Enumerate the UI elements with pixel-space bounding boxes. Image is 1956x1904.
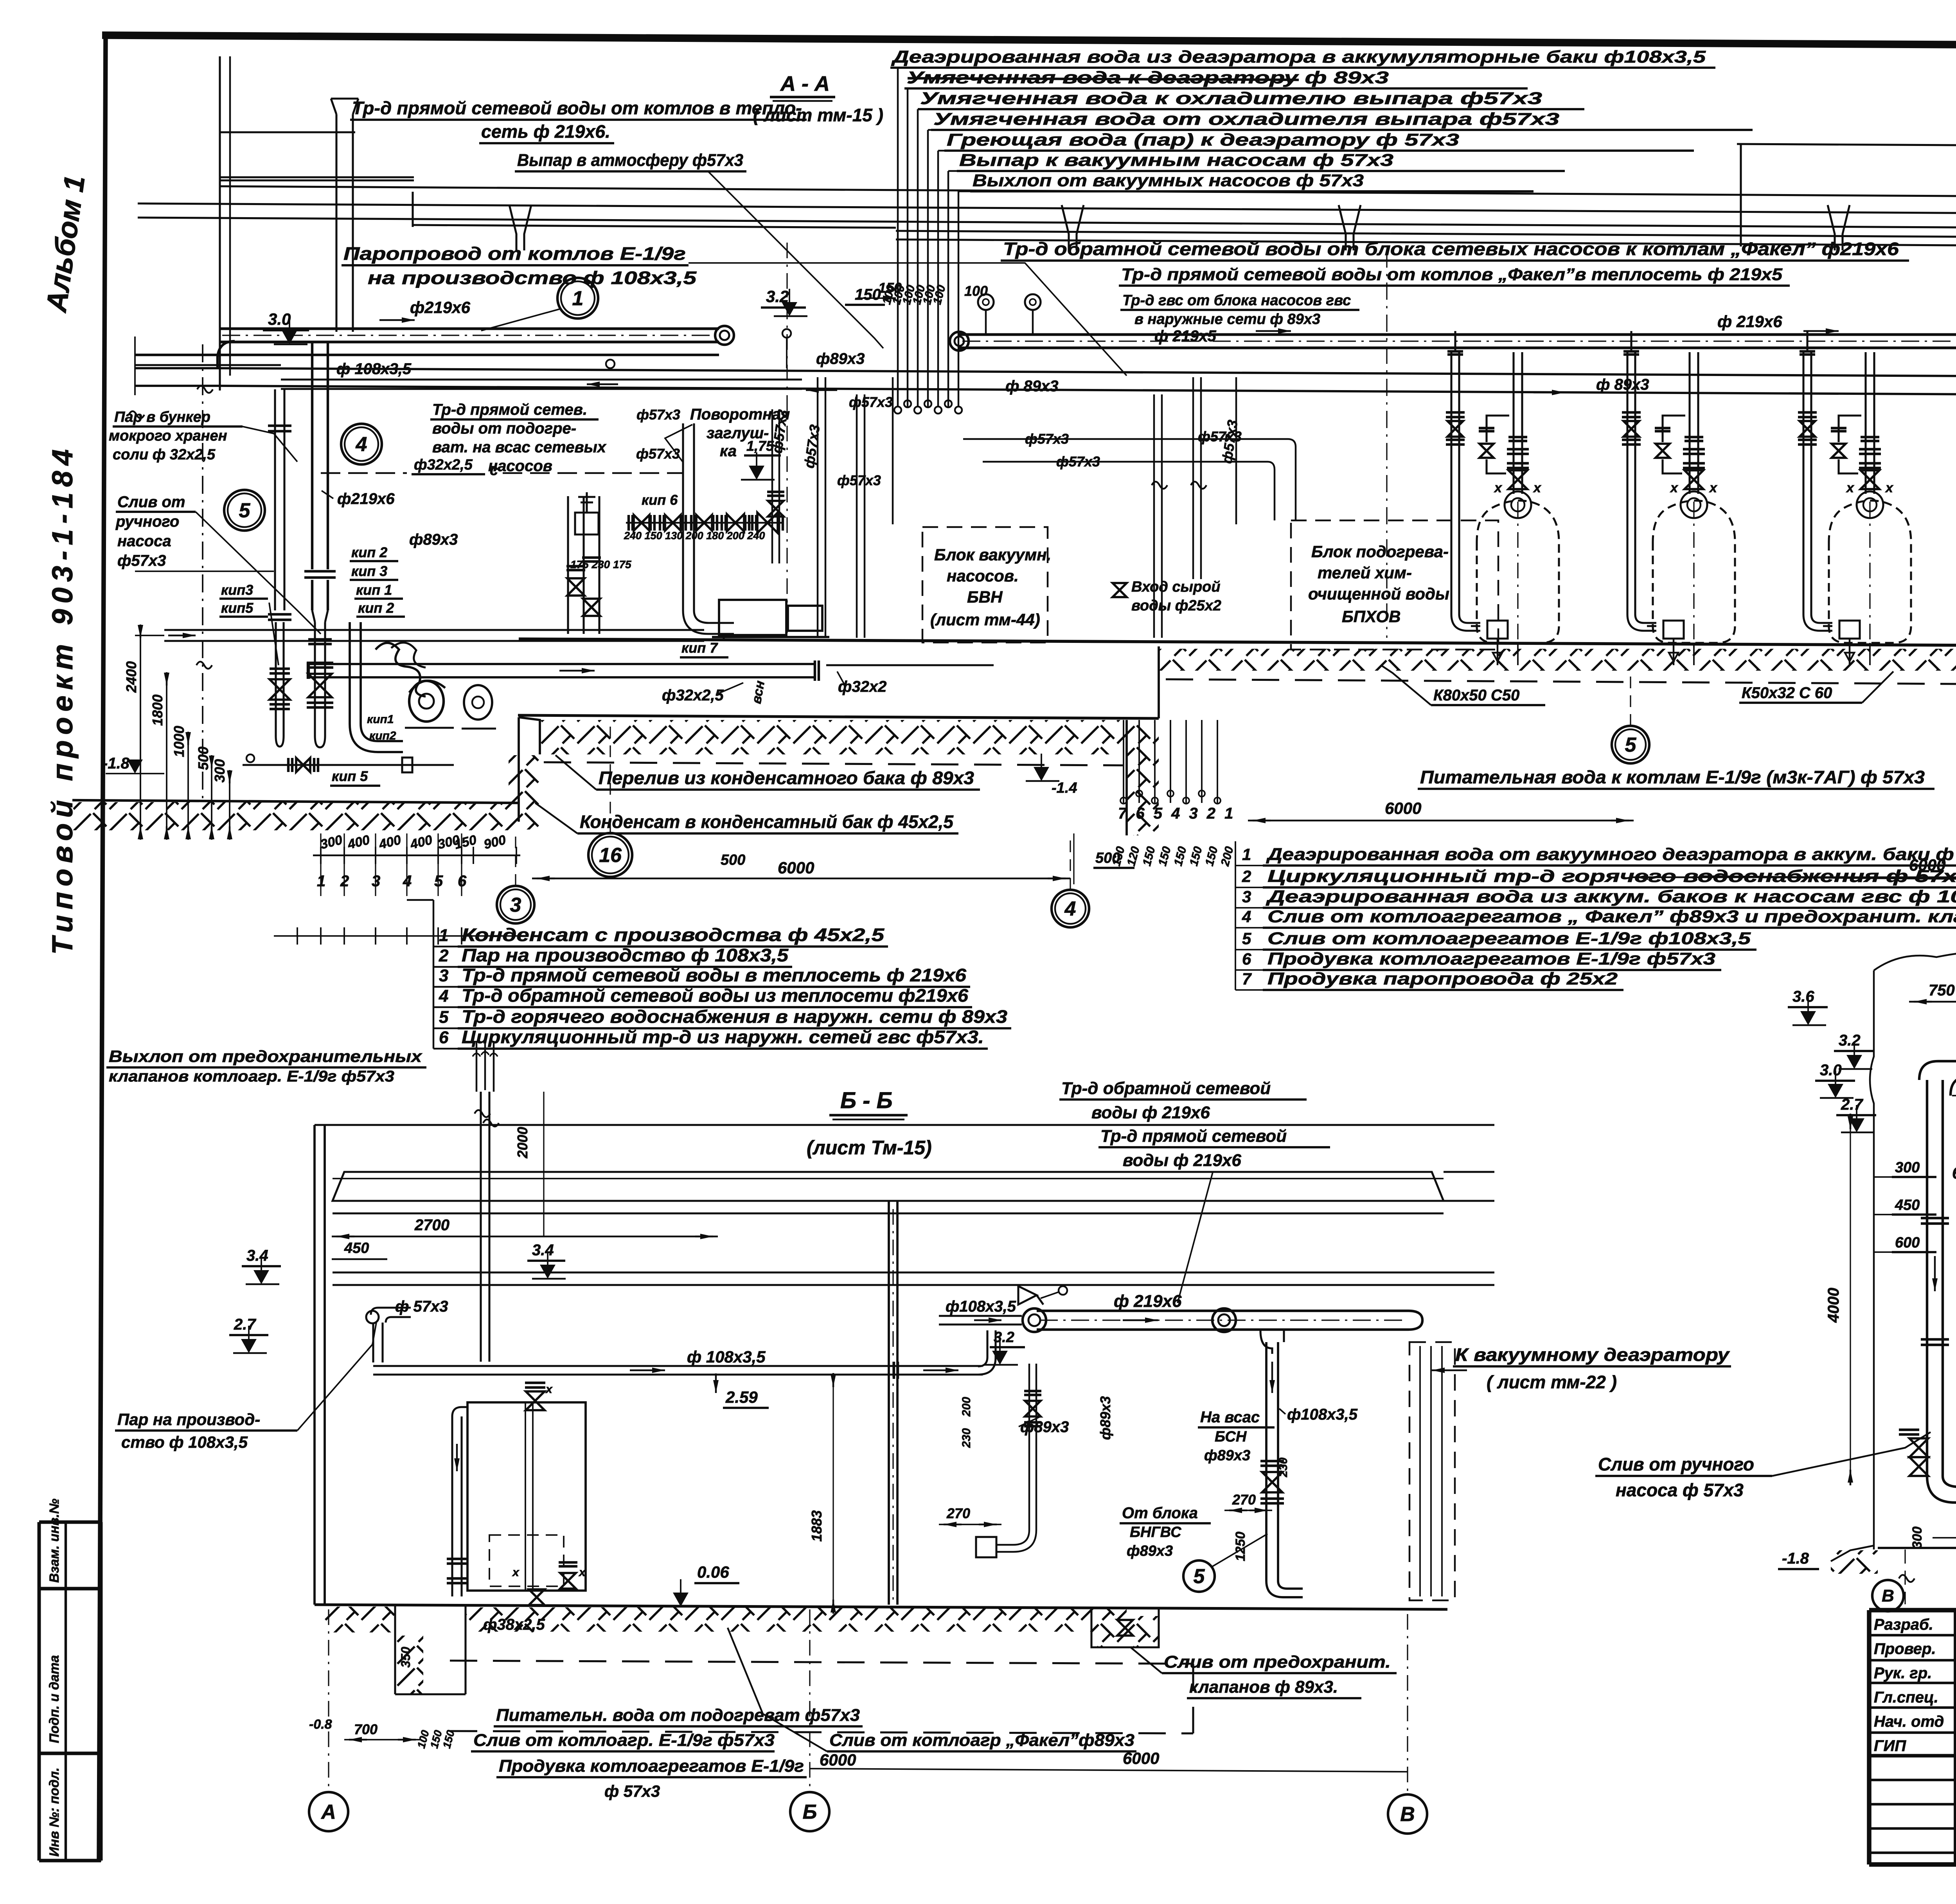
roof hangers (509, 205, 531, 250)
left parapet lines (219, 131, 355, 133)
heater feed lines (963, 438, 1288, 440)
svg-text:ф89х3: ф89х3 (1097, 1396, 1113, 1440)
Б-Б floor hatch left (325, 1607, 395, 1632)
В-В dim 750 (1909, 1001, 1956, 1002)
svg-text:Слив от котлоагр „Факел”ф89х: Слив от котлоагр „Факел”ф89х3 (829, 1731, 1134, 1750)
svg-text:Пар в бункер: Пар в бункер (114, 409, 210, 425)
svg-text:(лист Тм-15): (лист Тм-15) (807, 1137, 932, 1159)
callout circle 16 (588, 833, 632, 877)
boiler hall floor hatch (1159, 649, 1956, 671)
svg-text:300: 300 (1910, 1526, 1925, 1549)
svg-text:5: 5 (1194, 1565, 1205, 1588)
svg-text:750: 750 (1929, 982, 1955, 999)
svg-text:Слив от: Слив от (117, 493, 185, 511)
svg-text:ф108х3,5: ф108х3,5 (1287, 1406, 1358, 1423)
svg-text:ф57х3: ф57х3 (636, 446, 680, 462)
svg-text:Деаэрированная вода из акку: Деаэрированная вода из аккум. баков к на… (1265, 887, 1956, 906)
svg-text:К вакуумному деаэратору: К вакуумному деаэратору (1455, 1344, 1730, 1365)
tank drain valve at x=4330 (1673, 639, 1674, 665)
tank at x=4330 (1653, 500, 1735, 643)
svg-text:ф 219х6: ф 219х6 (1114, 1292, 1182, 1311)
svg-text:мокрого хранен: мокрого хранен (109, 428, 227, 444)
svg-text:ф57х3: ф57х3 (117, 552, 166, 569)
svg-text:Питательн. вода от подогреват: Питательн. вода от подогреват ф57х3 (496, 1706, 860, 1725)
secondary grid row (274, 935, 520, 937)
svg-text:От блока: От блока (1122, 1504, 1198, 1522)
pipe Ф219х5 right header (959, 333, 1956, 336)
svg-text:6: 6 (1242, 950, 1251, 968)
svg-text:700: 700 (354, 1721, 378, 1737)
Б-Б axis verticals and circles (328, 1609, 329, 1789)
pipe Ф219х6 left header (219, 327, 719, 330)
pipe Ф89х3 upper long run (219, 368, 1956, 377)
svg-text:ф 57х3: ф 57х3 (604, 1782, 660, 1800)
tap ticks on header at risers (1454, 331, 1456, 351)
svg-text:3: 3 (439, 966, 448, 985)
svg-text:кип1: кип1 (367, 713, 394, 726)
svg-text:(лист тм-44): (лист тм-44) (930, 610, 1040, 629)
svg-text:Провер.: Провер. (1874, 1640, 1936, 1657)
svg-text:воды ф25х2: воды ф25х2 (1131, 597, 1221, 614)
svg-text:240 150 130 200 180 200 240: 240 150 130 200 180 200 240 (624, 530, 765, 542)
svg-text:2.7: 2.7 (1841, 1096, 1863, 1113)
svg-text:Тр-д гвс от блока насосов гвс: Тр-д гвс от блока насосов гвс (1122, 292, 1351, 309)
riser drop from label 2 (904, 88, 908, 89)
pump 2 casing (464, 685, 492, 720)
svg-text:4000: 4000 (1825, 1288, 1842, 1323)
svg-text:очищенной воды: очищенной воды (1308, 585, 1449, 603)
roof line 4 partial left (413, 225, 896, 228)
Б-Б beam band (333, 1271, 1444, 1273)
list left bracket (433, 900, 434, 1049)
pump 1 suction curls (376, 643, 426, 696)
tank riser at x=4330 (1688, 352, 1690, 489)
svg-text:В: В (1400, 1803, 1415, 1826)
level 3.0 (274, 344, 307, 345)
tank side pipe at x=3880 (1450, 352, 1452, 614)
svg-text:кип 2: кип 2 (358, 600, 394, 616)
svg-text:2: 2 (439, 946, 449, 965)
svg-text:В: В (1882, 1586, 1894, 1605)
level -1.4 (1026, 780, 1059, 782)
channel left wall (519, 717, 540, 822)
svg-text:Выпар к вакуумным насосам: Выпар к вакуумным насосам ф 57х3 (959, 151, 1393, 170)
svg-text:К80х50 С50: К80х50 С50 (1433, 687, 1519, 704)
svg-text:Циркуляционный тр-д горячег: Циркуляционный тр-д горячего водоснабжен… (1267, 867, 1956, 886)
svg-text:5: 5 (239, 499, 251, 522)
svg-text:БНГВС: БНГВС (1130, 1524, 1181, 1540)
svg-text:Перелив из конденсатного бака: Перелив из конденсатного бака ф 89х3 (599, 768, 974, 788)
tank bypass loop at x=4330 (1663, 416, 1685, 442)
svg-text:х: х (1885, 480, 1894, 495)
В-В bottom elbow of riser (1927, 1476, 1956, 1503)
svg-text:6000: 6000 (1385, 799, 1421, 817)
svg-text:450: 450 (1895, 1197, 1920, 1213)
svg-text:4: 4 (439, 986, 448, 1006)
svg-text:ф89х3: ф89х3 (816, 350, 865, 367)
svg-text:Инв №: подл.: Инв №: подл. (47, 1767, 62, 1857)
svg-text:500: 500 (195, 747, 211, 770)
svg-text:х: х (1709, 480, 1718, 495)
Б-Б callout circle 5 with leader (1183, 1560, 1215, 1592)
Б-Б risers inside dashed box (1419, 1346, 1421, 1596)
svg-text:Гл.спец.: Гл.спец. (1874, 1689, 1938, 1706)
В-В valves at bottom (1909, 1438, 1928, 1457)
valve row with small dims (634, 515, 649, 531)
flow arrow on left header (402, 317, 415, 323)
svg-text:230: 230 (1277, 1458, 1290, 1477)
svg-text:6: 6 (439, 1028, 449, 1047)
svg-text:клапанов котлоагр. Е-1/9г ф57х: клапанов котлоагр. Е-1/9г ф57х3 (109, 1068, 394, 1085)
level -1.8 left (106, 773, 164, 774)
Б-Б big pipe Ф219х6 (1037, 1310, 1408, 1312)
svg-text:1800: 1800 (149, 695, 165, 726)
dim 450 (332, 1258, 387, 1260)
svg-text:х: х (1846, 480, 1855, 495)
svg-text:ф32х2,5: ф32х2,5 (414, 457, 473, 473)
svg-text:16: 16 (599, 844, 622, 867)
svg-text:ф32х2: ф32х2 (838, 678, 886, 695)
Б-Б vertical pipes from top (480, 1092, 482, 1362)
svg-text:А: А (320, 1801, 336, 1823)
svg-text:150: 150 (878, 280, 902, 296)
В-В axis and circle В (1904, 1549, 1906, 1604)
title block name columns (1954, 1610, 1956, 1864)
svg-text:Вход сырой: Вход сырой (1131, 579, 1221, 595)
Б-Б risers Ф89х3 (1028, 1364, 1030, 1530)
svg-text:Тр-д обратной сетевой: Тр-д обратной сетевой (1061, 1079, 1271, 1098)
hall floor slab (519, 639, 1956, 646)
svg-text:6000: 6000 (778, 858, 814, 877)
riser drop from label 6 (948, 170, 957, 172)
svg-text:ф 89х3: ф 89х3 (1596, 376, 1649, 393)
svg-text:Циркуляционный тр-д из наруж: Циркуляционный тр-д из наружн. сетей гвс… (462, 1027, 984, 1047)
vent stack to roof (335, 114, 337, 332)
svg-text:х: х (1494, 480, 1503, 495)
svg-text:воды ф 219х6: воды ф 219х6 (1123, 1151, 1241, 1170)
svg-text:х: х (1670, 480, 1679, 495)
svg-text:в наружные сети ф 89х3: в наружные сети ф 89х3 (1134, 311, 1320, 328)
suction header pipe (164, 629, 704, 631)
upper roof lines top-left (412, 192, 413, 227)
svg-text:К50х32 С 60: К50х32 С 60 (1742, 684, 1832, 702)
svg-text:Пар на производство ф 108х3: Пар на производство ф 108х3,5 (462, 945, 789, 965)
Б-Б bottom elbow right (1266, 1581, 1303, 1597)
svg-text:на производство ф 108х3,5: на производство ф 108х3,5 (368, 268, 697, 288)
svg-text:Продувка котлоагрегатов Е-1/: Продувка котлоагрегатов Е-1/9г (499, 1756, 804, 1776)
tank drain valve at x=3880 (1497, 639, 1498, 665)
svg-text:3.2: 3.2 (766, 287, 789, 306)
stamp column box (38, 1522, 41, 1861)
riser bundle loops (894, 407, 901, 414)
heater block dashed box (1291, 520, 1498, 650)
pipe continuation to vacuum block (826, 664, 994, 666)
vacuum pump block dashed box (922, 527, 1048, 642)
svg-text:3.4: 3.4 (246, 1247, 268, 1264)
svg-text:Продувка котлоагрегатов Е-: Продувка котлоагрегатов Е-1/9г ф57х3 (1267, 949, 1715, 968)
svg-text:кип 3: кип 3 (351, 563, 387, 579)
tank side pipe at x=4330 (1626, 352, 1628, 614)
svg-text:х: х (578, 1566, 586, 1579)
svg-text:Рук. гр.: Рук. гр. (1874, 1665, 1932, 1682)
svg-text:насоса: насоса (117, 533, 171, 550)
svg-text:7: 7 (1242, 970, 1252, 988)
svg-text:ф 108х3,5: ф 108х3,5 (687, 1348, 766, 1366)
svg-text:ф 89х3: ф 89х3 (1005, 378, 1059, 395)
svg-text:сеть ф 219х6.: сеть ф 219х6. (481, 121, 610, 142)
svg-text:Паропровод от котлов Е-1/9: Паропровод от котлов Е-1/9г (343, 243, 686, 264)
svg-text:Умягченная вода к охладител: Умягченная вода к охладителю выпара ф57х… (920, 89, 1542, 108)
risers to heater block (1153, 394, 1155, 638)
svg-text:2: 2 (1242, 867, 1251, 885)
svg-text:ф219х6: ф219х6 (410, 298, 471, 317)
svg-text:кип5: кип5 (221, 600, 253, 616)
riser drop from label 7 (958, 191, 970, 192)
leader from Паропровод label to pipe (689, 263, 1127, 376)
svg-text:3: 3 (1242, 887, 1251, 906)
svg-text:БВН: БВН (967, 588, 1003, 606)
sheet frame left border (99, 35, 106, 1862)
svg-text:соли ф 32х2,5: соли ф 32х2,5 (113, 446, 216, 463)
svg-text:кип 7: кип 7 (681, 640, 718, 656)
kip valve cluster risers (567, 496, 569, 634)
Б-Б column (888, 1201, 890, 1605)
left axis dash line (202, 344, 203, 801)
svg-text:2.59: 2.59 (725, 1388, 758, 1406)
pump room floor (72, 800, 519, 803)
flow arrow on right header (1826, 328, 1839, 334)
svg-text:100: 100 (964, 283, 988, 299)
svg-text:Взам. инв.№: Взам. инв.№ (47, 1499, 62, 1583)
pipe Ф32х2,5 dashed run (321, 472, 407, 474)
bottom dim row 300 400 400 400 300 150 900 (313, 855, 520, 856)
svg-text:ф 219х6: ф 219х6 (1717, 312, 1782, 331)
tank bottom fitting at x=4780 (1839, 621, 1860, 639)
safety valve assembly (575, 513, 599, 534)
dim 2700 (332, 1236, 718, 1237)
svg-text:Тр-д прямой сетевой воды в: Тр-д прямой сетевой воды в теплосеть ф 2… (462, 965, 966, 985)
leader from Выпар label down (708, 171, 883, 348)
Б-Б long pipe Ф108х3,5 (373, 1365, 983, 1367)
svg-text:Тр-д горячего водоснабжения: Тр-д горячего водоснабжения в наружн. се… (462, 1006, 1007, 1027)
tank side pipe at x=4780 (1802, 352, 1804, 614)
riser drop from label 4 (928, 129, 931, 131)
svg-text:150: 150 (855, 286, 881, 303)
svg-text:Тр-д прямой сетевой: Тр-д прямой сетевой (1100, 1127, 1287, 1146)
channel bottom under hall floor (518, 715, 1159, 718)
strikethrough right list item2 (1702, 876, 1956, 879)
svg-text:Деаэрированная вода от ваку: Деаэрированная вода от вакуумного деаэра… (1266, 845, 1956, 864)
Б-Б floor hatch right of pit (466, 1607, 1127, 1632)
svg-text:насоса ф 57х3: насоса ф 57х3 (1616, 1480, 1744, 1500)
svg-text:5: 5 (439, 1008, 449, 1027)
right bay roof top line (1737, 144, 1956, 147)
svg-text:Выхлоп от вакуумных насосов: Выхлоп от вакуумных насосов ф 57х3 (973, 171, 1364, 190)
svg-text:4: 4 (1064, 898, 1076, 920)
svg-text:-1.8: -1.8 (1782, 1550, 1809, 1567)
roof line 5 (896, 231, 1956, 238)
pipes above Б-Б roof with breaks (476, 1041, 477, 1092)
svg-text:Выпар в атмосферу ф57х3: Выпар в атмосферу ф57х3 (517, 151, 743, 170)
svg-text:ф57х3: ф57х3 (849, 394, 893, 410)
svg-text:телей хим-: телей хим- (1318, 563, 1412, 582)
svg-text:Умягченная вода от охладите: Умягченная вода от охладителя выпара ф57… (933, 110, 1559, 129)
svg-text:Б - Б: Б - Б (840, 1088, 893, 1113)
svg-text:2700: 2700 (414, 1217, 449, 1234)
svg-text:1883: 1883 (809, 1510, 825, 1542)
svg-text:Типовой проект 903-1-184: Типовой проект 903-1-184 (46, 444, 79, 955)
svg-text:0.06: 0.06 (697, 1563, 729, 1581)
svg-text:1: 1 (1242, 845, 1251, 864)
svg-text:( лист тм-22 ): ( лист тм-22 ) (1487, 1372, 1617, 1392)
tank at x=3880 (1477, 500, 1559, 643)
svg-text:230: 230 (960, 1428, 973, 1448)
tank at x=4780 (1829, 500, 1911, 643)
callout circle 3 (497, 886, 534, 923)
svg-text:Блок подогрева-: Блок подогрева- (1311, 542, 1449, 561)
channel right step hatch (1127, 722, 1159, 835)
svg-text:Блок вакуумн.: Блок вакуумн. (934, 545, 1051, 564)
callout circle 5 (224, 490, 265, 531)
В-В section cut outline (1874, 951, 1956, 1335)
svg-text:Тр-д прямой сетев.: Тр-д прямой сетев. (432, 401, 587, 418)
svg-text:ф89х3: ф89х3 (1020, 1418, 1069, 1436)
svg-text:На всас: На всас (1200, 1409, 1260, 1426)
callout circle 4 (341, 424, 382, 464)
svg-text:ф89х3: ф89х3 (1127, 1543, 1173, 1559)
svg-text:3.2: 3.2 (994, 1329, 1014, 1346)
Б-Б dim 6000 between Б and В (810, 1769, 1408, 1772)
callout circle 5 bottom (1612, 726, 1649, 763)
svg-text:175 230 175: 175 230 175 (570, 558, 631, 570)
svg-text:клапанов ф 89х3.: клапанов ф 89х3. (1189, 1677, 1338, 1697)
В-В dashed bottom line (1933, 1537, 1956, 1539)
svg-text:Тр-д прямой сетевой воды от: Тр-д прямой сетевой воды от котлов „Факе… (1121, 265, 1783, 284)
svg-text:300: 300 (212, 759, 228, 783)
svg-text:ф 219х5: ф 219х5 (1154, 328, 1216, 345)
roof line 6 (896, 239, 1956, 247)
hall under-floor dashed line (1166, 679, 1956, 686)
svg-text:5: 5 (1625, 734, 1637, 756)
svg-text:3.6: 3.6 (1792, 988, 1814, 1005)
svg-text:ф38х2,5: ф38х2,5 (483, 1616, 545, 1633)
svg-text:кип 6: кип 6 (642, 492, 678, 508)
svg-text:кип3: кип3 (221, 582, 253, 598)
svg-text:ф 108х3,5: ф 108х3,5 (336, 360, 412, 378)
level 3.2 left (774, 315, 807, 317)
svg-text:Греющая вода (пар) к деаэра: Греющая вода (пар) к деаэратору ф 57х3 (947, 130, 1459, 149)
left break squiggles (197, 386, 213, 393)
svg-text:2400: 2400 (123, 661, 139, 693)
svg-text:кип 5: кип 5 (332, 768, 368, 784)
svg-text:ка: ка (720, 443, 737, 460)
svg-text:ват. на всас сетевых: ват. на всас сетевых (432, 439, 607, 456)
Б-Б tank left pipe (451, 1416, 453, 1596)
Б-Б floor (315, 1605, 1447, 1609)
В-В main riser (1919, 1061, 1956, 1080)
svg-text:воды от подогре-: воды от подогре- (432, 420, 576, 437)
Б-Б pit (394, 1606, 396, 1694)
svg-text:Конденсат с производства: Конденсат с производства ф 45х2,5 (462, 925, 885, 945)
svg-text:1: 1 (572, 287, 584, 310)
left wall line (219, 56, 221, 391)
svg-text:1: 1 (439, 926, 448, 945)
svg-text:1000: 1000 (171, 726, 187, 757)
svg-text:кип 1: кип 1 (356, 582, 392, 598)
svg-text:3: 3 (510, 894, 521, 916)
svg-text:2000: 2000 (514, 1127, 530, 1159)
svg-text:3.0: 3.0 (268, 310, 291, 328)
svg-text:7 6 5 4 3 2 1: 7 6 5 4 3 2 1 (1118, 805, 1235, 822)
svg-text:ф219х6: ф219х6 (337, 490, 395, 507)
svg-text:ф32х2,5: ф32х2,5 (662, 687, 724, 704)
Б-Б stub pipe Ф108 from left (939, 1315, 1022, 1317)
svg-text:3.2: 3.2 (1839, 1032, 1861, 1049)
svg-text:Слив от котлоагр. Е-1/9г ф57: Слив от котлоагр. Е-1/9г ф57х3 (473, 1731, 775, 1750)
riser drop from label 5 (938, 150, 944, 151)
dim line 1460 (135, 570, 274, 572)
tank bypass loop at x=4780 (1839, 416, 1861, 442)
svg-text:воды ф 219х6: воды ф 219х6 (1091, 1103, 1210, 1122)
Б-Б underfloor dashed channel (450, 1661, 1193, 1664)
pressure gauges on header left (985, 309, 987, 335)
svg-text:Пар на производ-: Пар на производ- (117, 1410, 260, 1429)
Б-Б dashed риser box right (1409, 1342, 1455, 1600)
Б-Б elbow down from big pipe (1260, 1330, 1284, 1354)
trench risers to list (1123, 720, 1124, 803)
tank bypass loop at x=3880 (1487, 416, 1509, 442)
vacuum pump unit (719, 600, 786, 635)
svg-text:ф57х3: ф57х3 (837, 472, 881, 488)
tank drain valve at x=4780 (1849, 639, 1850, 665)
tank riser at x=3880 (1512, 352, 1514, 489)
Б-Б tank bottom fittings (447, 1558, 467, 1560)
svg-text:Слив от ручного: Слив от ручного (1598, 1454, 1754, 1474)
svg-text:Подп. и дата: Подп. и дата (47, 1655, 62, 1743)
Б-Б pipe Ф57х3 elbow (371, 1308, 411, 1323)
Б-Б right portion pipes (978, 1330, 996, 1375)
title block name rows (1869, 1634, 1956, 1636)
riser drop from label 3 (917, 108, 919, 110)
hook vents on line (782, 329, 791, 338)
tank riser at x=4780 (1864, 352, 1866, 489)
svg-text:4: 4 (356, 433, 367, 456)
lower manifold pipe Ф32 (308, 663, 814, 665)
svg-text:Разраб.: Разраб. (1874, 1616, 1933, 1633)
svg-text:ф108х3,5: ф108х3,5 (946, 1298, 1016, 1315)
svg-text:6000: 6000 (1123, 1749, 1159, 1767)
pipe Ф219 vertical riser (311, 341, 313, 569)
drain line with valves (243, 764, 454, 766)
svg-text:ф89х3: ф89х3 (1204, 1447, 1250, 1464)
svg-text:Слив от котлоагрегатов Е-1/: Слив от котлоагрегатов Е-1/9г ф108х3,5 (1267, 929, 1751, 948)
leader kip3-kip5 to wells (269, 603, 279, 665)
svg-text:3.0: 3.0 (1820, 1062, 1842, 1079)
svg-text:6 7 8 9 10: 6 7 8 9 10 (1952, 1164, 1956, 1182)
svg-text:-1.8: -1.8 (102, 755, 130, 772)
svg-text:-1.4: -1.4 (1052, 780, 1077, 796)
svg-text:3.4: 3.4 (532, 1242, 554, 1259)
svg-text:ручного: ручного (115, 513, 179, 530)
dim 6000 axes 5-6 (1631, 876, 1956, 878)
Б-Б roof line top (315, 1124, 1447, 1126)
svg-text:кип 2: кип 2 (351, 544, 387, 560)
svg-text:Нач. отд: Нач. отд (1874, 1713, 1944, 1730)
svg-text:600: 600 (1895, 1235, 1920, 1251)
В-В pit and ground (1878, 1547, 1956, 1549)
svg-text:Слив от предохранит.: Слив от предохранит. (1164, 1652, 1391, 1672)
svg-text:х: х (512, 1566, 520, 1579)
